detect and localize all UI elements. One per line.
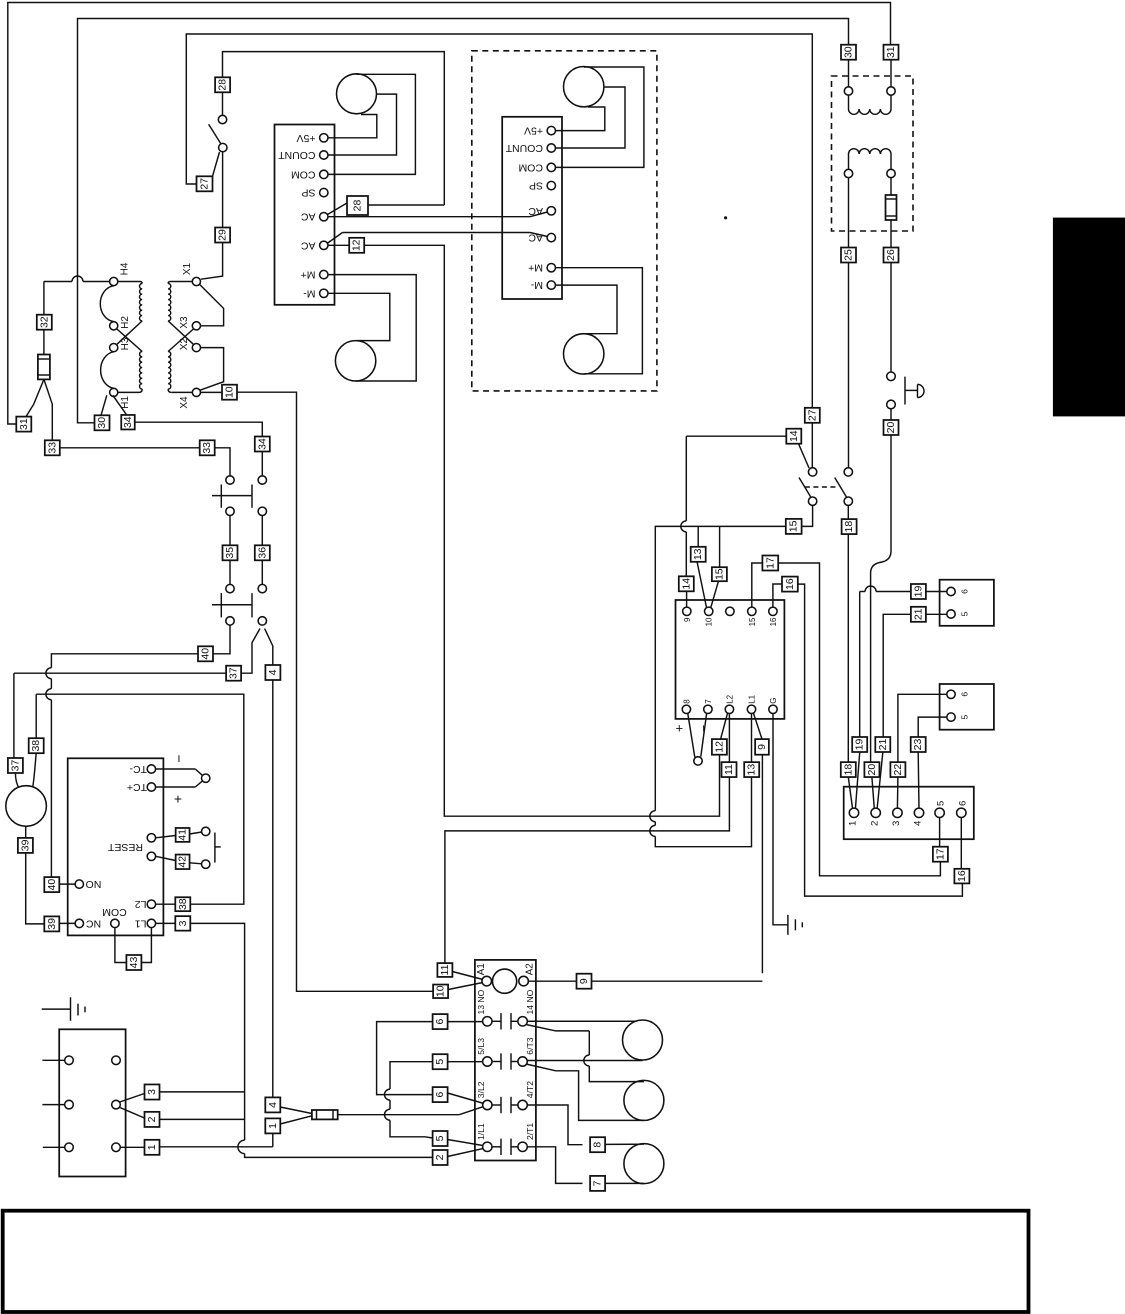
svg-text:11: 11 <box>439 964 451 975</box>
svg-text:33: 33 <box>46 442 58 454</box>
svg-text:34: 34 <box>256 438 268 450</box>
svg-text:36: 36 <box>256 547 268 559</box>
svg-text:3: 3 <box>146 1089 158 1095</box>
svg-text:2: 2 <box>434 1154 446 1160</box>
svg-text:29: 29 <box>217 229 229 241</box>
svg-text:−: − <box>171 755 187 763</box>
svg-text:31: 31 <box>18 418 30 430</box>
svg-text:9: 9 <box>756 744 768 750</box>
svg-text:21: 21 <box>877 739 889 751</box>
svg-text:15: 15 <box>713 568 725 580</box>
svg-text:17: 17 <box>934 848 946 860</box>
svg-text:7: 7 <box>592 1180 604 1186</box>
svg-text:SP: SP <box>301 187 315 199</box>
svg-text:COM: COM <box>519 161 544 173</box>
svg-text:39: 39 <box>19 839 31 851</box>
svg-text:1: 1 <box>146 1144 158 1150</box>
svg-text:40: 40 <box>46 879 58 891</box>
svg-text:11: 11 <box>723 764 735 775</box>
svg-text:A2: A2 <box>525 963 536 975</box>
svg-text:H2: H2 <box>120 316 131 329</box>
svg-text:13: 13 <box>692 548 704 560</box>
svg-text:1: 1 <box>848 821 859 826</box>
svg-text:6/T3: 6/T3 <box>525 1037 535 1054</box>
svg-text:21: 21 <box>912 608 924 620</box>
svg-text:25: 25 <box>843 249 855 261</box>
svg-text:8: 8 <box>592 1142 604 1148</box>
svg-text:L1: L1 <box>748 694 757 703</box>
svg-text:34: 34 <box>122 416 134 428</box>
svg-text:M+: M+ <box>301 269 316 281</box>
svg-text:L1: L1 <box>135 917 147 929</box>
svg-text:6: 6 <box>434 1019 446 1025</box>
svg-text:35: 35 <box>224 547 236 559</box>
svg-text:30: 30 <box>843 46 855 58</box>
svg-text:6: 6 <box>960 589 970 594</box>
svg-text:X4: X4 <box>179 396 190 409</box>
svg-text:41: 41 <box>177 829 189 841</box>
svg-text:3/L2: 3/L2 <box>476 1081 486 1098</box>
svg-text:COM: COM <box>102 906 127 918</box>
svg-text:20: 20 <box>866 764 878 776</box>
svg-text:14: 14 <box>788 430 800 442</box>
svg-text:+5V: +5V <box>524 125 543 137</box>
svg-text:X3: X3 <box>179 316 190 329</box>
svg-text:2/T1: 2/T1 <box>525 1123 535 1140</box>
svg-text:16: 16 <box>784 578 796 590</box>
svg-text:43: 43 <box>128 957 140 969</box>
svg-text:17: 17 <box>764 557 776 569</box>
svg-text:2: 2 <box>146 1116 158 1122</box>
svg-text:TC+: TC+ <box>127 781 147 793</box>
svg-text:TC-: TC- <box>129 763 147 775</box>
svg-text:18: 18 <box>842 764 854 776</box>
svg-text:L2: L2 <box>135 898 147 910</box>
svg-text:16: 16 <box>956 870 968 882</box>
svg-text:18: 18 <box>843 521 855 533</box>
svg-text:26: 26 <box>885 249 897 261</box>
svg-text:4: 4 <box>267 1102 279 1108</box>
svg-text:42: 42 <box>177 856 189 868</box>
svg-text:6: 6 <box>434 1092 446 1098</box>
svg-text:M-: M- <box>303 287 316 299</box>
svg-text:5: 5 <box>960 611 970 616</box>
svg-text:1: 1 <box>267 1123 279 1129</box>
svg-text:12: 12 <box>713 741 725 753</box>
svg-text:COUNT: COUNT <box>505 142 543 154</box>
svg-text:4: 4 <box>913 820 924 826</box>
svg-text:9: 9 <box>683 617 692 622</box>
svg-text:15: 15 <box>788 520 800 532</box>
svg-text:5: 5 <box>434 1059 446 1065</box>
svg-text:38: 38 <box>177 898 189 910</box>
svg-text:10: 10 <box>435 985 447 997</box>
svg-text:3: 3 <box>891 821 902 826</box>
svg-text:3: 3 <box>177 920 189 926</box>
svg-text:SP: SP <box>529 180 543 192</box>
svg-text:L2: L2 <box>725 694 734 703</box>
svg-text:1/L1: 1/L1 <box>476 1123 486 1140</box>
svg-text:32: 32 <box>38 316 50 328</box>
svg-text:13: 13 <box>746 764 758 776</box>
svg-text:14 NO: 14 NO <box>525 989 535 1014</box>
svg-text:15: 15 <box>748 617 757 626</box>
svg-text:40: 40 <box>200 648 212 660</box>
svg-text:H4: H4 <box>120 262 131 275</box>
svg-text:7: 7 <box>704 699 713 704</box>
svg-text:M+: M+ <box>528 262 543 274</box>
svg-text:AC: AC <box>528 232 543 244</box>
svg-text:9: 9 <box>578 978 590 984</box>
svg-text:12: 12 <box>351 239 363 251</box>
svg-text:AC: AC <box>300 211 315 223</box>
svg-text:37: 37 <box>9 760 21 772</box>
svg-text:19: 19 <box>912 586 924 598</box>
svg-text:X1: X1 <box>182 262 193 275</box>
svg-text:AC: AC <box>528 205 543 217</box>
svg-text:+: + <box>174 791 182 807</box>
svg-text:27: 27 <box>199 178 211 190</box>
svg-text:6: 6 <box>960 692 970 697</box>
svg-text:28: 28 <box>352 200 364 212</box>
svg-text:39: 39 <box>46 918 58 930</box>
svg-text:5/L3: 5/L3 <box>476 1038 486 1055</box>
svg-text:M-: M- <box>530 279 543 291</box>
svg-text:10: 10 <box>705 617 714 626</box>
svg-text:5: 5 <box>936 801 947 806</box>
svg-text:38: 38 <box>30 740 42 752</box>
svg-text:23: 23 <box>912 739 924 751</box>
svg-text:5: 5 <box>960 714 970 719</box>
svg-text:5: 5 <box>434 1135 446 1141</box>
svg-text:COUNT: COUNT <box>278 149 316 161</box>
svg-text:4/T2: 4/T2 <box>525 1081 535 1098</box>
svg-text:+5V: +5V <box>297 132 316 144</box>
svg-text:31: 31 <box>885 46 897 58</box>
svg-text:22: 22 <box>892 764 904 776</box>
svg-text:27: 27 <box>806 409 818 421</box>
svg-text:6: 6 <box>957 801 968 806</box>
svg-text:AC: AC <box>300 239 315 251</box>
svg-text:NC: NC <box>86 917 102 929</box>
svg-text:33: 33 <box>201 442 213 454</box>
svg-text:RESET: RESET <box>107 841 143 853</box>
svg-text:13 NO: 13 NO <box>476 989 486 1014</box>
svg-text:19: 19 <box>854 739 866 751</box>
svg-text:14: 14 <box>680 578 692 590</box>
svg-text:NO: NO <box>86 878 102 890</box>
svg-text:10: 10 <box>224 386 236 398</box>
svg-text:30: 30 <box>96 417 108 429</box>
svg-text:+: + <box>676 720 684 735</box>
svg-text:G: G <box>769 698 778 704</box>
svg-text:20: 20 <box>885 422 897 434</box>
svg-text:37: 37 <box>228 667 240 679</box>
svg-text:A1: A1 <box>476 963 487 975</box>
svg-text:28: 28 <box>217 79 229 91</box>
svg-text:4: 4 <box>267 669 279 675</box>
svg-text:8: 8 <box>682 699 691 704</box>
svg-text:COM: COM <box>291 168 316 180</box>
svg-text:16: 16 <box>769 617 778 626</box>
svg-text:2: 2 <box>869 821 880 826</box>
